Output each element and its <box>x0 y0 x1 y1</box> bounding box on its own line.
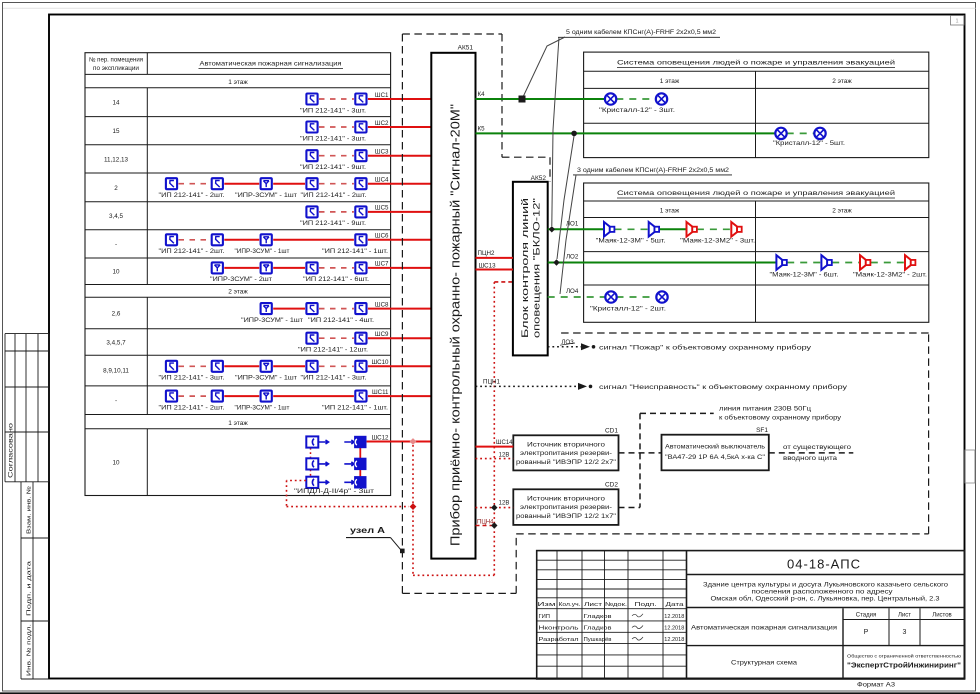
svg-text:Взам. инв. №: Взам. инв. № <box>27 486 33 534</box>
svg-text:1 этаж: 1 этаж <box>660 78 680 85</box>
svg-text:"Маяк-12-3М2" - 3шт.: "Маяк-12-3М2" - 3шт. <box>680 238 755 245</box>
svg-text:ШС7: ШС7 <box>375 261 389 268</box>
svg-text:"ИП 212-141" - 2шт.: "ИП 212-141" - 2шт. <box>159 404 225 411</box>
svg-text:№док.: №док. <box>605 602 628 608</box>
svg-text:"ИПР-3СУМ" - 1шт: "ИПР-3СУМ" - 1шт <box>235 404 290 411</box>
svg-text:3,4,5: 3,4,5 <box>109 213 124 220</box>
svg-text:ШС12: ШС12 <box>371 434 389 441</box>
svg-text:"ИПР-3СУМ" - 1шт: "ИПР-3СУМ" - 1шт <box>241 317 303 324</box>
svg-text:1: 1 <box>955 19 958 25</box>
svg-text:ШС13: ШС13 <box>479 262 497 269</box>
svg-text:ШС8: ШС8 <box>375 301 389 308</box>
svg-text:Гладков: Гладков <box>584 626 612 632</box>
svg-text:-: - <box>115 241 117 248</box>
svg-text:рованный "ИВЭПР 12/2 1х7": рованный "ИВЭПР 12/2 1х7" <box>516 512 616 520</box>
svg-text:"ИП 212-141" - 1шт.: "ИП 212-141" - 1шт. <box>322 248 388 255</box>
svg-text:3: 3 <box>903 629 907 636</box>
svg-text:"Маяк-12-3М2" - 2шт.: "Маяк-12-3М2" - 2шт. <box>853 272 927 279</box>
svg-text:"ИП 212-141" - 2шт.: "ИП 212-141" - 2шт. <box>159 192 225 199</box>
svg-text:"ИП 212-141" - 3шт.: "ИП 212-141" - 3шт. <box>300 107 366 114</box>
svg-text:Стадия: Стадия <box>856 613 876 619</box>
svg-text:Омская обл, Одесский р-он, с.: Омская обл, Одесский р-он, с. Лукьяновка… <box>711 596 941 603</box>
svg-text:"ИП 212-141" - 1шт.: "ИП 212-141" - 1шт. <box>322 404 388 411</box>
svg-text:12В: 12В <box>499 501 510 507</box>
svg-text:8,9,10,11: 8,9,10,11 <box>103 367 129 374</box>
svg-text:поселения расположенного по ад: поселения расположенного по адресу <box>752 590 893 596</box>
svg-text:Пушкарёв: Пушкарёв <box>584 637 612 643</box>
svg-text:вводного щита: вводного щита <box>783 455 838 462</box>
svg-text:"ИПР-3СУМ" - 1шт: "ИПР-3СУМ" - 1шт <box>235 192 297 199</box>
svg-text:Источник вторичного: Источник вторичного <box>527 442 606 449</box>
svg-text:Лист: Лист <box>898 613 911 619</box>
svg-text:ШС14: ШС14 <box>496 440 513 446</box>
svg-text:1 этаж: 1 этаж <box>228 79 248 86</box>
svg-text:Источник вторичного: Источник вторичного <box>527 496 606 503</box>
svg-text:"ИП 212-141" - 3шт.: "ИП 212-141" - 3шт. <box>301 375 367 382</box>
svg-text:АК51: АК51 <box>458 45 474 52</box>
svg-text:12.2018: 12.2018 <box>664 637 684 643</box>
svg-text:ШС5: ШС5 <box>375 205 389 212</box>
svg-text:"Маяк-12-3М" - 5шт.: "Маяк-12-3М" - 5шт. <box>596 238 666 245</box>
svg-text:"ИПР-3СУМ" - 1шт: "ИПР-3СУМ" - 1шт <box>235 248 290 255</box>
svg-text:Гладков: Гладков <box>584 614 612 620</box>
svg-text:ШС9: ШС9 <box>375 331 389 338</box>
svg-text:к объектовому охранному прибор: к объектовому охранному прибору <box>719 414 842 422</box>
svg-text:Формат А3: Формат А3 <box>857 682 896 689</box>
svg-text:ПЦН2: ПЦН2 <box>478 250 495 257</box>
svg-text:2: 2 <box>114 185 118 192</box>
svg-text:электропитания резерви-: электропитания резерви- <box>520 450 612 457</box>
svg-text:ЛО4: ЛО4 <box>566 288 579 295</box>
svg-text:Изм: Изм <box>538 602 556 608</box>
svg-text:"ВА47-29 1Р 6А 4,5кА х-ка С": "ВА47-29 1Р 6А 4,5кА х-ка С" <box>665 454 765 461</box>
svg-text:3,4,5,7: 3,4,5,7 <box>106 339 126 346</box>
svg-text:рованный "ИВЭПР 12/2 2х7": рованный "ИВЭПР 12/2 2х7" <box>516 458 616 466</box>
svg-text:15: 15 <box>112 128 120 135</box>
svg-text:Лист: Лист <box>584 602 603 608</box>
svg-text:2 этаж: 2 этаж <box>832 78 852 85</box>
svg-text:Автоматический выключатель: Автоматический выключатель <box>665 443 766 451</box>
svg-text:"ИП 212-141" - 2шт.: "ИП 212-141" - 2шт. <box>159 248 225 255</box>
svg-text:-: - <box>115 397 117 404</box>
svg-text:2,6: 2,6 <box>112 310 121 317</box>
svg-text:Кол.уч.: Кол.уч. <box>559 602 582 608</box>
svg-text:1 этаж: 1 этаж <box>660 208 680 215</box>
svg-text:сигнал "Пожар" к объектовому о: сигнал "Пожар" к объектовому охранному п… <box>599 343 812 351</box>
svg-text:линия питания 230В 50Гц: линия питания 230В 50Гц <box>719 406 811 413</box>
svg-text:ШС4: ШС4 <box>375 177 389 184</box>
svg-text:от существующего: от существующего <box>783 444 852 451</box>
svg-text:электропитания резерви-: электропитания резерви- <box>520 504 612 511</box>
svg-text:оповещения "БКЛО-12": оповещения "БКЛО-12" <box>532 198 542 338</box>
svg-text:3 одним кабелем КПСнг(А)-FRHF: 3 одним кабелем КПСнг(А)-FRHF 2х2х0,5 мм… <box>577 166 729 174</box>
svg-text:"ИП 212-141" - 2шт.: "ИП 212-141" - 2шт. <box>301 192 367 199</box>
svg-text:Здание центра культуры и досуг: Здание центра культуры и досуга Лукьянов… <box>703 583 949 589</box>
svg-text:"ИП 212-141" - 4шт.: "ИП 212-141" - 4шт. <box>308 317 374 324</box>
svg-text:14: 14 <box>112 99 120 106</box>
svg-text:Нконтроль: Нконтроль <box>539 626 579 632</box>
svg-text:"ИПР-3СУМ" - 2шт: "ИПР-3СУМ" - 2шт <box>210 276 272 283</box>
svg-text:Система оповещения людей о пож: Система оповещения людей о пожаре и упра… <box>617 59 895 67</box>
svg-text:Автоматическая пожарная сигнал: Автоматическая пожарная сигнализация <box>200 61 342 68</box>
svg-text:ГИП: ГИП <box>539 614 550 620</box>
svg-text:сигнал "Неисправность" к объек: сигнал "Неисправность" к объектовому охр… <box>599 383 848 391</box>
svg-text:ШС6: ШС6 <box>375 233 389 240</box>
svg-text:ЛО2: ЛО2 <box>566 254 579 261</box>
svg-text:Р: Р <box>864 629 869 636</box>
svg-text:К4: К4 <box>478 91 486 98</box>
svg-text:ШС3: ШС3 <box>375 149 389 156</box>
svg-text:12В: 12В <box>499 452 510 458</box>
svg-text:04-18-АПС: 04-18-АПС <box>787 557 861 572</box>
svg-text:узел А: узел А <box>350 526 386 535</box>
svg-text:"ИП 212-141" - 9шт.: "ИП 212-141" - 9шт. <box>300 220 366 227</box>
svg-text:ПЦН1: ПЦН1 <box>483 378 500 385</box>
svg-text:CD1: CD1 <box>605 428 618 435</box>
svg-text:SF1: SF1 <box>756 427 768 434</box>
svg-text:ШС1: ШС1 <box>375 92 389 99</box>
svg-text:"ЭкспертСтройИнжиниринг": "ЭкспертСтройИнжиниринг" <box>847 662 961 670</box>
svg-text:Прибор приёмно- контрольный ох: Прибор приёмно- контрольный охранно- пож… <box>448 104 463 546</box>
svg-text:Разработал: Разработал <box>539 637 579 643</box>
svg-text:Подп.: Подп. <box>635 602 658 608</box>
svg-text:2 этаж: 2 этаж <box>832 208 852 215</box>
svg-text:5 одним кабелем КПСнг(А)-FRHF: 5 одним кабелем КПСнг(А)-FRHF 2х2х0,5 мм… <box>566 28 716 36</box>
svg-text:ШС11: ШС11 <box>372 389 389 396</box>
svg-text:ШС10: ШС10 <box>371 359 389 366</box>
svg-text:Автоматическая пожарная сигнал: Автоматическая пожарная сигнализация <box>691 625 837 632</box>
svg-text:"ИП 212-141" - 12шт.: "ИП 212-141" - 12шт. <box>298 347 368 354</box>
svg-text:12.2018: 12.2018 <box>664 626 684 632</box>
svg-text:Инв. № подл.: Инв. № подл. <box>27 623 33 676</box>
svg-text:"ИПДЛ-Д-II/4р" - 3шт: "ИПДЛ-Д-II/4р" - 3шт <box>294 488 374 495</box>
svg-text:по экспликации: по экспликации <box>93 65 140 72</box>
svg-text:АК52: АК52 <box>531 175 547 182</box>
svg-text:"Маяк-12-3М" - 6шт.: "Маяк-12-3М" - 6шт. <box>770 272 839 279</box>
svg-text:"ИП 212-141" - 3шт.: "ИП 212-141" - 3шт. <box>300 135 366 142</box>
svg-text:Структурная схема: Структурная схема <box>731 660 798 667</box>
svg-text:Листов: Листов <box>932 613 952 619</box>
svg-text:12.2018: 12.2018 <box>664 614 684 620</box>
svg-text:10: 10 <box>112 459 120 466</box>
svg-text:Система оповещения людей о пож: Система оповещения людей о пожаре и упра… <box>617 189 895 197</box>
svg-text:ШС2: ШС2 <box>375 120 389 127</box>
svg-text:"ИПР-3СУМ" - 1шт: "ИПР-3СУМ" - 1шт <box>235 375 297 382</box>
svg-text:ПЦН4: ПЦН4 <box>477 520 494 526</box>
svg-text:Согласовано: Согласовано <box>8 422 15 478</box>
svg-text:"ИП 212-141" - 3шт.: "ИП 212-141" - 3шт. <box>159 375 225 382</box>
svg-text:"ИП 212-141" - 9шт.: "ИП 212-141" - 9шт. <box>300 164 366 171</box>
svg-text:Блок контроля линий: Блок контроля линий <box>520 198 530 338</box>
svg-text:1 этаж: 1 этаж <box>228 420 248 427</box>
svg-text:Дата: Дата <box>666 602 685 608</box>
svg-text:10: 10 <box>112 268 120 275</box>
svg-text:Общество с ограниченной ответс: Общество с ограниченной ответственностью <box>847 653 962 659</box>
svg-text:Подп. и дата: Подп. и дата <box>27 560 33 616</box>
svg-text:"ИП 212-141" - 6шт.: "ИП 212-141" - 6шт. <box>303 276 369 283</box>
svg-text:"Кристалл-12" - 2шт.: "Кристалл-12" - 2шт. <box>590 306 666 313</box>
svg-text:CD2: CD2 <box>605 482 618 489</box>
svg-text:"Кристалл-12" - 5шт.: "Кристалл-12" - 5шт. <box>773 140 845 147</box>
svg-text:2 этаж: 2 этаж <box>228 289 248 296</box>
svg-text:"Кристалл-12" - 3шт.: "Кристалл-12" - 3шт. <box>599 107 675 114</box>
svg-text:11,12,13: 11,12,13 <box>104 156 129 163</box>
svg-text:К5: К5 <box>478 125 486 132</box>
svg-text:№ пер. помещения: № пер. помещения <box>89 57 143 64</box>
